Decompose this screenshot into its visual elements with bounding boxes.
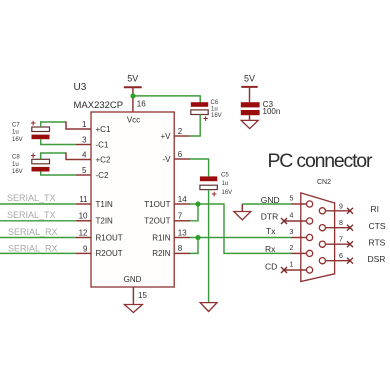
svg-text:9: 9 <box>83 245 88 254</box>
wire GND net to connector <box>242 203 291 205</box>
pin 6 stub DSR <box>326 260 351 262</box>
wire pin6 to C5 top <box>190 159 209 176</box>
svg-text:16V: 16V <box>12 169 23 175</box>
ground symbol near connector <box>234 212 251 220</box>
svg-text:5V: 5V <box>244 73 255 83</box>
svg-text:RTS: RTS <box>369 238 386 248</box>
node junction at pin16 <box>130 93 135 98</box>
svg-text:4: 4 <box>82 150 87 159</box>
pin 8 stub R2IN <box>174 252 190 254</box>
svg-text:1: 1 <box>290 262 294 269</box>
svg-text:1u: 1u <box>12 130 19 136</box>
svg-text:5: 5 <box>82 166 87 175</box>
svg-text:16V: 16V <box>222 190 233 196</box>
svg-text:CN2: CN2 <box>317 179 331 186</box>
svg-text:T2IN: T2IN <box>96 217 114 226</box>
pin 3 stub <box>76 144 91 146</box>
svg-text:+: + <box>212 189 217 199</box>
pin 11 stub <box>76 203 91 205</box>
pin 6 stub <box>174 158 190 160</box>
svg-text:1u: 1u <box>211 107 218 113</box>
wire SERIAL_RX to pin9 <box>0 252 76 254</box>
capacitor C8 <box>12 150 50 175</box>
wire C8 bottom to pin5 <box>41 172 76 176</box>
svg-text:Vcc: Vcc <box>127 116 140 125</box>
pin 4 stub DTR no-connect <box>284 220 307 222</box>
svg-text:R2OUT: R2OUT <box>96 249 123 258</box>
wire C5 bottom to ground <box>208 190 210 303</box>
connector hole pin6 <box>319 258 325 264</box>
ground symbol under C3 <box>241 120 258 128</box>
no-connect X pin8 <box>347 225 353 231</box>
svg-text:3: 3 <box>82 135 87 144</box>
capacitor C3 <box>241 100 280 116</box>
svg-text:1u: 1u <box>222 181 229 187</box>
svg-text:3: 3 <box>290 229 294 236</box>
svg-text:C5: C5 <box>221 172 229 178</box>
wire C3 to ground <box>249 115 251 120</box>
node junction T1OUT <box>195 201 200 206</box>
svg-text:6: 6 <box>178 150 183 159</box>
svg-text:SERIAL_TX: SERIAL_TX <box>7 210 56 220</box>
wire SERIAL_TX to pin10 <box>0 220 76 222</box>
svg-text:10: 10 <box>79 212 88 221</box>
svg-text:14: 14 <box>178 195 187 204</box>
svg-text:R1OUT: R1OUT <box>96 233 123 242</box>
svg-text:GND: GND <box>124 275 142 284</box>
ground symbol under IC <box>124 305 142 313</box>
svg-text:8: 8 <box>178 244 183 253</box>
svg-text:15: 15 <box>138 291 147 300</box>
pin 1 stub CD no-connect <box>284 269 307 271</box>
svg-text:T1IN: T1IN <box>96 200 114 209</box>
pin 5 stub <box>76 174 91 176</box>
connector hole pin8 <box>319 225 325 231</box>
svg-text:DSR: DSR <box>368 254 386 264</box>
pin 3 stub Tx <box>291 237 307 239</box>
svg-text:6: 6 <box>339 253 343 260</box>
svg-text:16: 16 <box>137 100 146 109</box>
wire T1OUT net <box>190 204 291 253</box>
svg-text:13: 13 <box>178 228 187 237</box>
svg-text:DTR: DTR <box>261 212 278 222</box>
capacitor C7 <box>12 118 50 143</box>
svg-text:T2OUT: T2OUT <box>144 217 170 226</box>
wire R2IN tie to R1IN <box>190 238 198 254</box>
connector hole pin1 <box>307 267 313 273</box>
svg-text:100n: 100n <box>263 107 281 116</box>
svg-text:2: 2 <box>178 127 183 136</box>
pin 7 stub T2OUT <box>174 220 190 222</box>
svg-text:CTS: CTS <box>369 221 386 231</box>
svg-text:C6: C6 <box>211 100 219 106</box>
svg-text:9: 9 <box>339 203 343 210</box>
svg-text:+: + <box>203 114 208 124</box>
wire C8 top to pin4 <box>41 153 66 159</box>
IC U3 MAX232CP body <box>91 112 174 287</box>
svg-text:R2IN: R2IN <box>152 249 170 258</box>
svg-text:Tx: Tx <box>266 226 276 236</box>
svg-text:11: 11 <box>79 195 88 204</box>
svg-text:2: 2 <box>290 245 294 252</box>
connector hole pin2 <box>307 250 313 256</box>
svg-text:5V: 5V <box>127 74 138 84</box>
svg-text:+C1: +C1 <box>96 125 111 134</box>
svg-text:GND: GND <box>261 195 280 205</box>
connector hole pin5 <box>307 201 313 207</box>
5V supply symbol above C3 <box>241 73 257 102</box>
svg-text:R1IN: R1IN <box>152 233 170 242</box>
pin 12 stub <box>76 237 91 239</box>
wire GND drop <box>241 204 243 212</box>
connector hole pin4 <box>307 218 313 224</box>
no-connect X pin4 <box>281 218 287 224</box>
wire C6 bottom to pin2 <box>190 115 200 137</box>
svg-text:16V: 16V <box>12 137 23 143</box>
svg-text:4: 4 <box>290 213 294 220</box>
node junction R1IN <box>195 235 200 240</box>
wire elbow into pin 4 <box>66 152 91 159</box>
connector hole pin7 <box>319 241 325 247</box>
svg-text:MAX232CP: MAX232CP <box>74 100 124 111</box>
connector hole pin9 <box>319 208 325 214</box>
svg-text:16V: 16V <box>211 113 222 119</box>
svg-text:+C2: +C2 <box>96 155 111 164</box>
svg-text:-V: -V <box>163 155 172 164</box>
svg-text:-C1: -C1 <box>96 140 109 149</box>
pin 8 stub CTS <box>326 227 351 229</box>
svg-text:1: 1 <box>82 120 87 129</box>
pin 10 stub <box>76 220 91 222</box>
svg-text:5: 5 <box>290 196 294 203</box>
svg-text:8: 8 <box>339 220 343 227</box>
wire C7 bottom to pin3 <box>41 139 76 144</box>
pin 13 stub R1IN <box>174 237 190 239</box>
pin 14 stub T1OUT <box>174 203 190 205</box>
pin 7 stub RTS <box>326 243 351 245</box>
connector hole pin3 <box>307 234 313 240</box>
ground symbol under C5 <box>200 303 217 312</box>
wire 5V rail to C6 <box>133 96 200 103</box>
svg-text:C8: C8 <box>12 155 20 161</box>
capacitor C5 <box>200 172 232 198</box>
svg-text:7: 7 <box>178 212 183 221</box>
svg-text:T1OUT: T1OUT <box>144 200 170 209</box>
no-connect X pin7 <box>347 241 353 247</box>
svg-text:7: 7 <box>339 237 343 244</box>
svg-text:SERIAL_RX: SERIAL_RX <box>8 244 58 254</box>
wire elbow into pin 1 <box>66 121 91 129</box>
no-connect X pin9 <box>347 208 353 214</box>
wire C7 top to pin1 <box>41 122 66 127</box>
svg-text:1u: 1u <box>12 162 19 168</box>
wire R1IN net to connector <box>190 237 291 239</box>
no-connect X pin1 <box>281 267 287 273</box>
pin 15 stub to ground <box>132 287 134 305</box>
pin 9 stub RI <box>326 210 351 212</box>
svg-text:Rx: Rx <box>265 244 276 254</box>
wire T2OUT tie to T1OUT <box>190 204 198 221</box>
pin 2 stub <box>174 135 190 137</box>
svg-text:RI: RI <box>371 204 380 214</box>
pin 2 stub Rx <box>291 252 307 254</box>
wire SERIAL_RX to pin12 <box>0 237 76 239</box>
svg-text:C7: C7 <box>12 122 20 128</box>
svg-text:PC connector: PC connector <box>268 150 373 172</box>
5V supply symbol above IC <box>124 74 142 113</box>
svg-text:U3: U3 <box>74 82 87 93</box>
svg-text:SERIAL_RX: SERIAL_RX <box>8 227 58 237</box>
pin 9 stub <box>76 252 91 254</box>
svg-text:CD: CD <box>265 262 277 272</box>
svg-text:+V: +V <box>160 132 171 141</box>
pin 5 stub into connector <box>291 203 307 205</box>
svg-text:12: 12 <box>79 228 88 237</box>
svg-text:SERIAL_TX: SERIAL_TX <box>7 193 56 203</box>
connector CN2 DB9 body <box>301 193 335 282</box>
svg-text:-C2: -C2 <box>96 171 109 180</box>
capacitor C6 <box>191 100 222 124</box>
no-connect X pin6 <box>347 258 353 264</box>
wire SERIAL_TX to pin11 <box>0 203 76 205</box>
